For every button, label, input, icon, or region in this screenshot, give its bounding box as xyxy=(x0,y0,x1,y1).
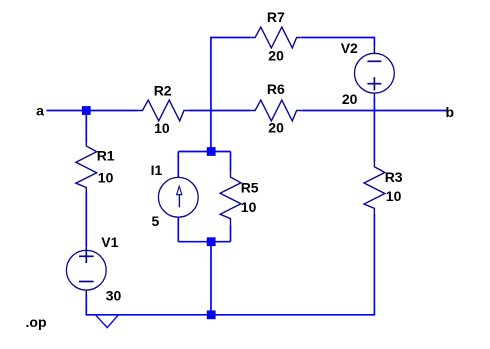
resistor R1 xyxy=(76,142,97,192)
ground xyxy=(96,315,118,327)
svg-text:10: 10 xyxy=(98,169,114,185)
svg-text:20: 20 xyxy=(342,91,358,107)
svg-text:R6: R6 xyxy=(267,81,285,97)
wire V2 bottom through crossing down to R3 xyxy=(373,98,375,161)
svg-text:I1: I1 xyxy=(151,162,163,178)
voltage source V1 xyxy=(66,250,106,290)
wire top-left vertical down to center junction xyxy=(210,38,212,152)
svg-text:b: b xyxy=(446,104,455,120)
svg-text:R1: R1 xyxy=(97,147,115,163)
wire R5 branch lower xyxy=(230,226,232,242)
svg-text:a: a xyxy=(36,102,44,118)
svg-text:R5: R5 xyxy=(241,180,259,196)
svg-text:V2: V2 xyxy=(341,40,358,56)
V1 minus sign xyxy=(79,281,94,283)
svg-text:30: 30 xyxy=(106,287,122,303)
wire R7 to V2 top corner xyxy=(302,38,375,46)
svg-text:5: 5 xyxy=(152,213,160,229)
svg-text:20: 20 xyxy=(268,47,284,63)
svg-text:R3: R3 xyxy=(385,169,403,185)
resistor R3 xyxy=(364,160,385,214)
resistor R7 xyxy=(250,27,302,48)
wire R6 to b xyxy=(302,110,447,112)
wire R1 bottom to V1 top xyxy=(85,191,87,246)
wire V1 bottom to bottom-left corner xyxy=(85,295,87,316)
wire parallel block top rail xyxy=(178,151,230,153)
wire a to R2 xyxy=(47,110,139,112)
wire junction a down to R1 xyxy=(85,111,87,143)
svg-text:R7: R7 xyxy=(267,9,285,25)
V1 plus sign xyxy=(79,255,94,257)
junction bottom rail xyxy=(207,310,216,319)
I1 arrow xyxy=(178,194,180,207)
svg-text:10: 10 xyxy=(241,199,257,215)
V2 minus sign xyxy=(367,60,381,62)
svg-text:10: 10 xyxy=(386,188,402,204)
svg-text:V1: V1 xyxy=(101,234,118,250)
resistor R2 xyxy=(138,100,189,121)
wire I1 branch upper xyxy=(177,152,179,178)
junction bottom of parallel block xyxy=(207,237,216,246)
V2 plus sign xyxy=(367,83,381,85)
svg-text:R2: R2 xyxy=(154,83,172,99)
svg-text:10: 10 xyxy=(154,120,170,136)
junction top of parallel block xyxy=(207,147,216,156)
svg-text:20: 20 xyxy=(268,120,284,136)
wire I1 branch lower xyxy=(177,217,179,242)
svg-text:.op: .op xyxy=(26,314,47,330)
wire R3 bottom to bottom-right corner to bottom rail xyxy=(86,214,374,314)
wire parallel block bottom rail xyxy=(178,241,230,243)
wire center junction down to bottom rail xyxy=(210,242,212,315)
resistor R6 xyxy=(250,100,302,121)
current source I1 xyxy=(158,177,198,217)
junction at node a xyxy=(82,106,91,115)
resistor R5 xyxy=(220,171,241,227)
wire R5 branch upper xyxy=(230,152,232,172)
wire top corner to R7 xyxy=(210,37,250,39)
wire R2 to R6 xyxy=(189,110,251,112)
voltage source V2 xyxy=(355,53,395,93)
